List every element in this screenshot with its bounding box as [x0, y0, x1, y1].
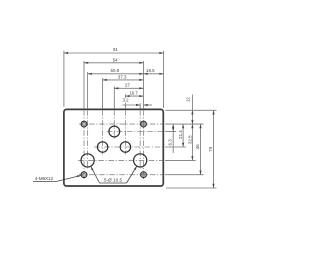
svg-text:79: 79 [208, 146, 213, 151]
svg-text:16.7: 16.7 [129, 90, 138, 95]
svg-text:54: 54 [113, 57, 118, 62]
svg-text:12: 12 [185, 97, 190, 102]
svg-text:46: 46 [195, 144, 200, 149]
svg-text:21.4: 21.4 [178, 130, 183, 139]
svg-text:4-M6X12: 4-M6X12 [35, 176, 54, 181]
svg-text:3.2: 3.2 [122, 98, 129, 103]
svg-text:6.3: 6.3 [168, 139, 173, 146]
svg-text:91: 91 [113, 47, 118, 52]
svg-text:50.8: 50.8 [111, 68, 120, 73]
svg-text:18.5: 18.5 [146, 68, 155, 73]
svg-text:37.3: 37.3 [118, 75, 127, 80]
svg-text:32.5: 32.5 [187, 135, 192, 144]
svg-text:27: 27 [125, 83, 130, 88]
svg-text:5-Ø 10.5: 5-Ø 10.5 [104, 178, 123, 183]
